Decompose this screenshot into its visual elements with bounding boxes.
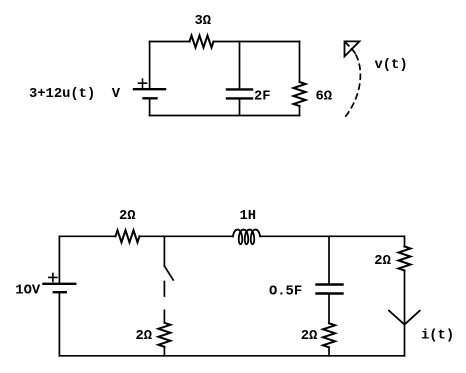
capacitor C 2F top plate	[227, 88, 252, 90]
capacitor C 0.5F bottom plate	[317, 292, 343, 294]
wire cap branch lower	[328, 347, 330, 356]
wire top segment 2	[140, 235, 234, 237]
capacitor C 0.5F top plate	[317, 283, 343, 285]
wire top-right segment	[214, 41, 300, 43]
wire right branch lower	[299, 106, 301, 116]
wire middle branch lower	[239, 98, 241, 115]
svg-text:O.5F: O.5F	[269, 285, 302, 300]
svg-text:2F: 2F	[254, 90, 271, 105]
svg-text:2Ω: 2Ω	[119, 209, 136, 224]
svg-text:3+12u(t) V: 3+12u(t) V	[29, 86, 121, 102]
resistor R 6Ω	[294, 82, 306, 106]
probe dashed curve v(t)	[344, 55, 361, 119]
wire left branch lower	[149, 98, 151, 115]
svg-text:2Ω: 2Ω	[301, 329, 318, 344]
wire cap branch upper	[328, 236, 330, 284]
wire left branch lower	[58, 292, 60, 356]
inductor L 1H	[233, 230, 260, 245]
wire cap branch middle	[328, 294, 330, 324]
svg-text:1H: 1H	[240, 209, 257, 224]
probe arrow head v(t)	[345, 41, 360, 56]
capacitor C 2F bottom plate	[227, 97, 252, 99]
battery 10V bottom plate	[54, 291, 66, 293]
wire right branch upper	[404, 236, 406, 246]
wire top-left segment	[150, 41, 190, 43]
battery V1 bottom plate	[144, 97, 157, 99]
svg-text:6Ω: 6Ω	[316, 90, 333, 105]
switch vertical stub	[163, 236, 165, 266]
wire left branch upper	[149, 42, 151, 90]
resistor R 2Ω switch branch	[158, 323, 170, 347]
switch blade	[164, 266, 173, 280]
wire right branch lower	[404, 271, 406, 356]
wire bottom of top circuit	[150, 115, 300, 117]
svg-text:3Ω: 3Ω	[195, 14, 212, 29]
wire top segment 3	[260, 235, 405, 237]
wire left branch upper	[58, 236, 60, 283]
resistor R 3Ω	[190, 36, 214, 48]
wire switch branch lower	[163, 347, 165, 356]
svg-text:2Ω: 2Ω	[136, 329, 153, 344]
resistor R 2Ω right	[399, 247, 411, 271]
wire top segment 1	[59, 235, 115, 237]
wire right branch upper	[299, 42, 301, 83]
svg-text:2Ω: 2Ω	[374, 254, 391, 269]
switch dashed wire	[163, 282, 165, 323]
svg-text:v(t): v(t)	[375, 57, 408, 73]
battery V1 plus sign	[139, 79, 147, 87]
battery 10V top plate	[44, 283, 76, 285]
svg-text:i(t): i(t)	[421, 328, 454, 344]
battery V1 top plate	[134, 88, 165, 90]
svg-text:1OV: 1OV	[15, 284, 41, 299]
wire bottom of bottom circuit	[59, 355, 404, 357]
resistor R 2Ω mid-bottom	[323, 323, 335, 347]
wire middle branch upper	[239, 42, 241, 90]
resistor R 2Ω top-left	[116, 230, 140, 242]
battery 10V plus sign	[49, 273, 57, 281]
current arrow i(t)	[389, 311, 420, 325]
